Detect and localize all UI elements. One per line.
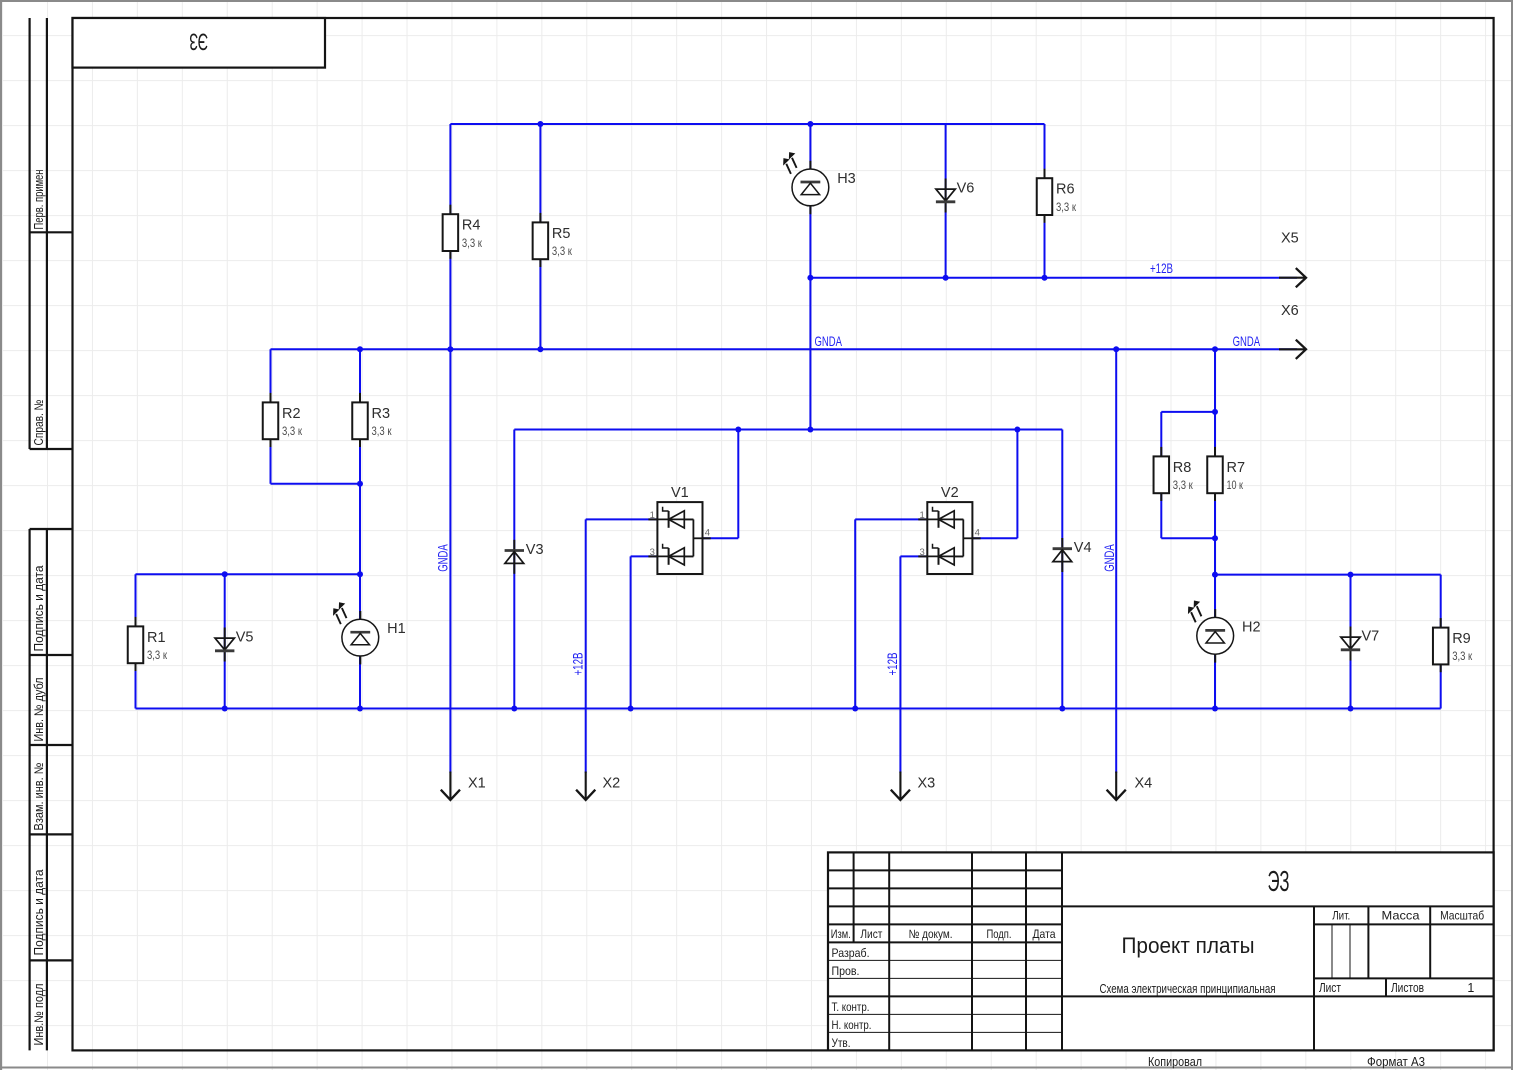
svg-text:ЭЗ: ЭЗ bbox=[1268, 866, 1290, 898]
svg-text:4: 4 bbox=[975, 528, 980, 539]
svg-text:Дата: Дата bbox=[1033, 927, 1056, 941]
svg-text:V3: V3 bbox=[526, 542, 544, 558]
svg-text:R8: R8 bbox=[1173, 460, 1192, 476]
svg-text:V7: V7 bbox=[1362, 629, 1380, 645]
svg-text:10 к: 10 к bbox=[1227, 478, 1244, 492]
svg-text:3: 3 bbox=[650, 547, 655, 558]
svg-text:R6: R6 bbox=[1056, 182, 1075, 198]
svg-text:Справ. №: Справ. № bbox=[32, 400, 46, 446]
svg-text:GNDA: GNDA bbox=[1101, 544, 1117, 572]
svg-text:X5: X5 bbox=[1281, 231, 1299, 247]
svg-text:R3: R3 bbox=[372, 406, 391, 422]
svg-text:Лист: Лист bbox=[1319, 981, 1341, 995]
svg-text:V5: V5 bbox=[236, 630, 254, 646]
svg-text:R4: R4 bbox=[462, 218, 481, 234]
svg-text:4: 4 bbox=[705, 528, 710, 539]
svg-text:Копировал: Копировал bbox=[1148, 1054, 1202, 1069]
svg-text:H3: H3 bbox=[837, 171, 856, 187]
svg-text:Подпись и дата: Подпись и дата bbox=[32, 869, 46, 955]
svg-text:Масштаб: Масштаб bbox=[1440, 909, 1484, 923]
svg-text:№ докум.: № докум. bbox=[909, 927, 953, 941]
svg-text:Листов: Листов bbox=[1391, 981, 1424, 995]
svg-text:+12В: +12В bbox=[1150, 260, 1173, 276]
svg-text:Лист: Лист bbox=[860, 927, 882, 941]
svg-text:3,3 к: 3,3 к bbox=[282, 424, 303, 438]
svg-text:Н. контр.: Н. контр. bbox=[832, 1018, 872, 1032]
svg-text:Взам. инв. №: Взам. инв. № bbox=[32, 763, 46, 831]
svg-text:Изм.: Изм. bbox=[831, 927, 851, 941]
svg-text:Инв.№ подл: Инв.№ подл bbox=[32, 984, 46, 1046]
svg-text:X1: X1 bbox=[468, 776, 486, 792]
svg-text:3,3 к: 3,3 к bbox=[462, 236, 483, 250]
svg-text:Схема электрическая принципиал: Схема электрическая принципиальная bbox=[1100, 981, 1276, 996]
svg-text:Разраб.: Разраб. bbox=[832, 946, 870, 960]
svg-text:Проект платы: Проект платы bbox=[1122, 933, 1255, 958]
svg-text:Пров.: Пров. bbox=[832, 964, 860, 978]
svg-text:Перв. примен: Перв. примен bbox=[32, 169, 46, 229]
svg-text:X3: X3 bbox=[918, 776, 936, 792]
svg-text:V1: V1 bbox=[671, 485, 689, 501]
svg-text:3: 3 bbox=[920, 547, 925, 558]
svg-text:1: 1 bbox=[1467, 981, 1474, 995]
svg-text:R2: R2 bbox=[282, 406, 301, 422]
svg-text:R1: R1 bbox=[147, 630, 166, 646]
svg-text:Т. контр.: Т. контр. bbox=[832, 1000, 870, 1014]
svg-text:H1: H1 bbox=[387, 621, 406, 637]
svg-text:V6: V6 bbox=[957, 181, 975, 197]
svg-text:X4: X4 bbox=[1135, 776, 1153, 792]
svg-text:V2: V2 bbox=[941, 485, 959, 501]
svg-text:GNDA: GNDA bbox=[815, 333, 843, 349]
svg-text:V4: V4 bbox=[1074, 540, 1092, 556]
svg-text:GNDA: GNDA bbox=[435, 544, 451, 572]
svg-text:3,3 к: 3,3 к bbox=[372, 424, 393, 438]
svg-text:3,3 к: 3,3 к bbox=[1173, 478, 1194, 492]
svg-text:Масса: Масса bbox=[1382, 909, 1420, 923]
svg-text:+12В: +12В bbox=[570, 653, 586, 676]
svg-text:Инв. № дубл: Инв. № дубл bbox=[32, 678, 46, 742]
svg-text:Подпись и дата: Подпись и дата bbox=[32, 565, 46, 651]
svg-text:1: 1 bbox=[920, 510, 925, 521]
svg-text:X6: X6 bbox=[1281, 303, 1299, 319]
svg-text:3,3 к: 3,3 к bbox=[1452, 649, 1473, 663]
svg-text:Формат А3: Формат А3 bbox=[1367, 1054, 1425, 1069]
svg-text:3,3 к: 3,3 к bbox=[147, 648, 168, 662]
svg-text:Лит.: Лит. bbox=[1332, 909, 1350, 923]
svg-text:1: 1 bbox=[650, 510, 655, 521]
svg-text:R5: R5 bbox=[552, 226, 571, 242]
svg-text:+12В: +12В bbox=[884, 653, 900, 676]
svg-text:R7: R7 bbox=[1227, 460, 1246, 476]
svg-text:3,3 к: 3,3 к bbox=[552, 244, 573, 258]
svg-text:R9: R9 bbox=[1452, 631, 1471, 647]
svg-text:GNDA: GNDA bbox=[1233, 333, 1261, 349]
svg-text:ЭЗ: ЭЗ bbox=[189, 28, 208, 55]
svg-text:3,3 к: 3,3 к bbox=[1056, 200, 1077, 214]
svg-text:H2: H2 bbox=[1242, 619, 1261, 635]
svg-text:X2: X2 bbox=[603, 776, 621, 792]
svg-text:Утв.: Утв. bbox=[832, 1036, 851, 1050]
svg-text:Подп.: Подп. bbox=[987, 927, 1012, 941]
